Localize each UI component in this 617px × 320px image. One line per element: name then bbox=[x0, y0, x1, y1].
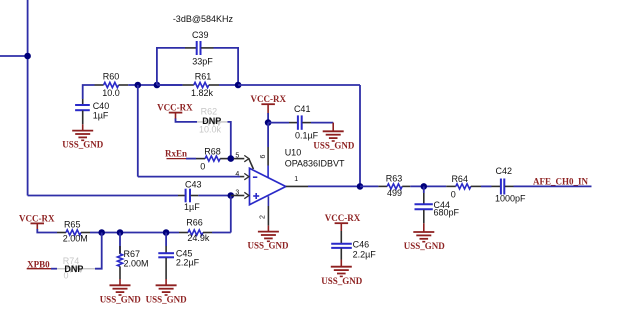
capacitor C42 bbox=[492, 179, 514, 195]
wire R64 to C42 bbox=[481, 185, 492, 187]
pin 5 stub bbox=[234, 158, 245, 160]
capacitor C39 bbox=[185, 41, 214, 55]
svg-text:5: 5 bbox=[235, 153, 239, 160]
svg-text:R60: R60 bbox=[103, 72, 120, 82]
power VCC-RX (R62) bbox=[169, 113, 183, 119]
capacitor C44 bbox=[415, 186, 433, 223]
svg-text:C39: C39 bbox=[192, 30, 209, 40]
resistor R65 bbox=[57, 230, 90, 235]
svg-text:1µF: 1µF bbox=[184, 202, 200, 212]
wire VCC-RX corner to R62 bbox=[176, 119, 198, 122]
svg-text:10.0k: 10.0k bbox=[199, 124, 222, 134]
junction pin5 node bbox=[228, 155, 235, 162]
op-amp minus sign bbox=[253, 176, 257, 178]
wire C39 loop left bbox=[157, 48, 185, 85]
junction C45 branch node bbox=[163, 229, 170, 236]
svg-text:6: 6 bbox=[260, 154, 267, 158]
svg-text:680pF: 680pF bbox=[434, 208, 460, 218]
wire VCC-RX corner to R65 bbox=[37, 229, 57, 233]
junction XPB0 branch node bbox=[98, 229, 105, 236]
svg-text:USS_GND: USS_GND bbox=[247, 241, 289, 251]
svg-text:AFE_CH0_IN: AFE_CH0_IN bbox=[533, 176, 589, 186]
capacitor C41 bbox=[289, 115, 311, 129]
pin 4 stub bbox=[240, 176, 244, 178]
pin 3 arrow bbox=[244, 192, 249, 198]
wire pin4 vertical bbox=[137, 85, 139, 177]
svg-text:VCC-RX: VCC-RX bbox=[325, 213, 361, 223]
svg-text:4: 4 bbox=[235, 171, 239, 178]
svg-text:R64: R64 bbox=[451, 174, 468, 184]
ground USS_GND (C40) bbox=[72, 124, 93, 140]
junction C44 node bbox=[421, 183, 428, 190]
svg-text:1µF: 1µF bbox=[93, 110, 109, 120]
capacitor C46 bbox=[331, 231, 352, 260]
capacitor C45 bbox=[158, 233, 174, 280]
wire output node to R63 bbox=[360, 185, 378, 187]
junction pin4 branch node bbox=[135, 82, 142, 89]
svg-text:1.82k: 1.82k bbox=[191, 88, 214, 98]
resistor R63 bbox=[378, 184, 410, 189]
junction pin3 node bbox=[228, 192, 235, 199]
svg-text:1: 1 bbox=[294, 176, 298, 183]
wire R74 to rail corner up bbox=[95, 233, 102, 269]
ground USS_GND (C45) bbox=[156, 279, 177, 295]
wire R65 to rail dots bbox=[90, 232, 179, 234]
junction pin6 node bbox=[265, 119, 272, 126]
svg-text:2: 2 bbox=[259, 215, 266, 219]
pin 6 inner blue segment bbox=[267, 166, 269, 178]
pin 5 arrow bbox=[244, 155, 249, 161]
ground USS_GND (C46) bbox=[331, 260, 352, 277]
wire RxEn underline bbox=[167, 158, 187, 160]
power VCC-RX (C41 / pin6) bbox=[261, 104, 275, 113]
pin 5 diagonal bbox=[249, 159, 254, 169]
power VCC-RX (C46) bbox=[335, 223, 349, 231]
junction C39 right node bbox=[235, 82, 242, 89]
svg-text:R61: R61 bbox=[195, 72, 212, 82]
wire R60 corner to C40 bbox=[83, 85, 95, 99]
wire R68 to pin5 node bbox=[228, 158, 234, 160]
wire R63 to C44 node bbox=[410, 185, 446, 187]
pin 6 stub bbox=[267, 147, 269, 166]
power VCC-RX (R65 rail) bbox=[31, 223, 45, 229]
junction output node bbox=[357, 183, 364, 190]
resistor R66 bbox=[179, 230, 212, 235]
wire pin4 horizontal bbox=[138, 176, 240, 178]
resistor R62 (DNP, greyed) bbox=[197, 119, 228, 124]
wire R66 right corner up bbox=[212, 232, 231, 234]
resistor R60 bbox=[95, 82, 129, 87]
pin 4 arrow bbox=[244, 173, 249, 179]
svg-text:USS_GND: USS_GND bbox=[146, 295, 188, 305]
svg-text:USS_GND: USS_GND bbox=[321, 276, 363, 286]
wire feedback right vertical bbox=[359, 85, 361, 186]
resistor R61 bbox=[157, 82, 219, 87]
svg-text:499: 499 bbox=[387, 188, 402, 198]
wire XPB0 underline bbox=[27, 268, 51, 270]
junction left input node bbox=[24, 53, 31, 60]
svg-text:R63: R63 bbox=[386, 173, 403, 183]
pin 1 stub bbox=[286, 185, 308, 187]
svg-text:VCC-RX: VCC-RX bbox=[251, 94, 287, 104]
svg-text:-3dB@584KHz: -3dB@584KHz bbox=[173, 14, 234, 24]
wire XPB0 to R74 bbox=[51, 268, 57, 270]
wire R60 to R61 bbox=[128, 84, 182, 86]
capacitor C43 bbox=[178, 189, 198, 203]
pin 2 wire stub bbox=[267, 196, 269, 206]
svg-text:0: 0 bbox=[200, 161, 205, 171]
svg-text:USS_GND: USS_GND bbox=[404, 241, 446, 251]
svg-text:24.9k: 24.9k bbox=[187, 233, 210, 243]
ground USS_GND (C41) bbox=[323, 123, 344, 141]
op-amp plus sign bbox=[253, 193, 259, 199]
wire C42 to AFE_CH0_IN bbox=[514, 185, 592, 187]
wire pin3 input horizontal bbox=[28, 195, 178, 197]
svg-text:VCC-RX: VCC-RX bbox=[157, 103, 193, 113]
svg-text:2.00M: 2.00M bbox=[63, 234, 88, 244]
pin 2 stub bbox=[267, 206, 269, 226]
svg-text:10.0: 10.0 bbox=[102, 88, 120, 98]
wire R62 to pin5 node bbox=[228, 122, 231, 159]
ground USS_GND (C44) bbox=[413, 223, 434, 241]
svg-text:R68: R68 bbox=[204, 146, 221, 156]
wire RxEn to R68 bbox=[186, 158, 196, 160]
svg-text:OPA836IDBVT: OPA836IDBVT bbox=[285, 158, 345, 168]
svg-text:USS_GND: USS_GND bbox=[62, 140, 104, 150]
svg-text:USS_GND: USS_GND bbox=[100, 295, 142, 305]
op-amp U10 triangle bbox=[250, 168, 286, 204]
svg-text:1000pF: 1000pF bbox=[495, 193, 526, 203]
svg-text:2.00M: 2.00M bbox=[124, 259, 149, 269]
svg-text:0: 0 bbox=[63, 271, 68, 281]
svg-text:0: 0 bbox=[451, 189, 456, 199]
junction R67 branch node bbox=[117, 229, 124, 236]
wire pin3 node down to R66 rail bbox=[230, 196, 232, 233]
ground USS_GND (R67) bbox=[110, 279, 131, 295]
wire R61 to feedback corner bbox=[219, 84, 238, 86]
svg-text:USS_GND: USS_GND bbox=[313, 140, 355, 150]
svg-text:U10: U10 bbox=[285, 147, 302, 157]
svg-text:2.2µF: 2.2µF bbox=[353, 250, 377, 260]
resistor R67 bbox=[117, 233, 122, 280]
svg-text:C46: C46 bbox=[353, 240, 370, 250]
wire feedback top horizontal bbox=[238, 84, 360, 86]
wire C43 to pin3 node bbox=[198, 195, 231, 197]
junction C39 left node bbox=[154, 82, 161, 89]
svg-text:C41: C41 bbox=[294, 104, 311, 114]
wire left input vertical bbox=[27, 0, 29, 196]
svg-text:3: 3 bbox=[235, 189, 239, 196]
wire pin6 node to C41 bbox=[268, 122, 289, 124]
capacitor C40 bbox=[75, 99, 90, 124]
pin 3 stub bbox=[231, 195, 244, 197]
svg-text:R66: R66 bbox=[186, 218, 203, 228]
svg-text:VCC-RX: VCC-RX bbox=[19, 213, 55, 223]
wire C41 to ground bbox=[311, 122, 333, 124]
svg-text:R62: R62 bbox=[201, 106, 218, 116]
wire VCC-RX down to pin6 node bbox=[267, 113, 269, 123]
wire left input horizontal stub bbox=[0, 55, 28, 57]
svg-text:C43: C43 bbox=[185, 180, 202, 190]
svg-text:0.1µF: 0.1µF bbox=[295, 130, 319, 140]
resistor R68 bbox=[196, 156, 228, 161]
wire pin1 to output node bbox=[308, 185, 360, 187]
wire C39 loop right bbox=[214, 48, 239, 85]
resistor R74 (DNP, greyed) bbox=[57, 266, 95, 271]
resistor R64 bbox=[446, 184, 481, 189]
svg-text:33pF: 33pF bbox=[192, 56, 213, 66]
svg-text:RxEn: RxEn bbox=[165, 149, 187, 159]
ground USS_GND (op-amp pin2) bbox=[258, 226, 279, 242]
svg-text:2.2µF: 2.2µF bbox=[176, 258, 200, 268]
wire pin6 vertical bbox=[267, 123, 269, 147]
svg-text:C42: C42 bbox=[496, 166, 513, 176]
svg-text:R65: R65 bbox=[64, 219, 81, 229]
svg-text:R67: R67 bbox=[124, 249, 141, 259]
